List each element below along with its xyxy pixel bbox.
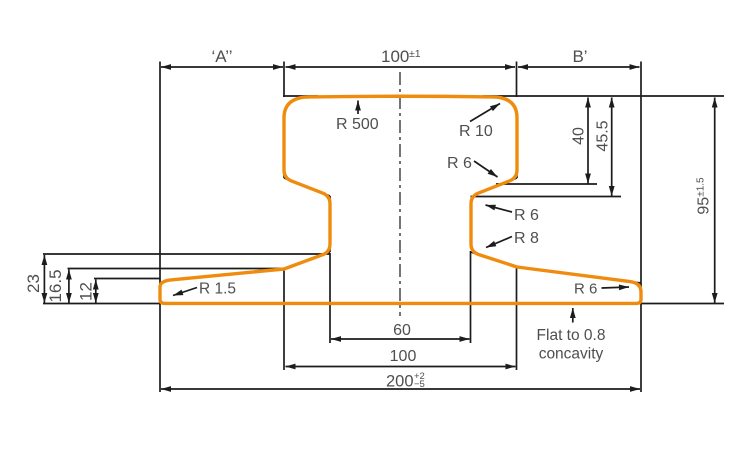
extension line: rail bottom left stub	[43, 303, 161, 305]
extension line: 12 level	[94, 278, 160, 280]
corner mark: web top-left slope	[321, 192, 330, 196]
corner mark: web bottom-left slope	[321, 252, 330, 256]
svg-text:60: 60	[393, 322, 411, 339]
svg-text:R 8: R 8	[514, 230, 539, 247]
extension line: rail bottom right, to 95 dim	[640, 303, 724, 305]
centerline of rail (dash-dot)	[399, 72, 401, 316]
leader arrow to R 1.5 foot edge	[173, 288, 197, 296]
svg-text:40: 40	[571, 127, 588, 145]
corner mark: web bottom-left vertical	[329, 242, 331, 252]
dimension line 95±1.5 (rail height)	[712, 98, 718, 304]
corner mark: head lower-right slope	[508, 178, 518, 182]
extension line: 16.5 level	[68, 268, 285, 270]
dimension line 12	[93, 280, 99, 304]
extension line: rail top right, to 95 dim	[483, 95, 724, 97]
svg-text:‘A’’: ‘A’’	[211, 47, 232, 66]
extension line: web left edge down to 60 dim	[329, 253, 331, 343]
svg-text:B’: B’	[572, 47, 587, 66]
dimension line 100±1 (head width)	[286, 64, 516, 70]
dimension line 60 (web width)	[331, 336, 470, 342]
svg-text:Flat to 0.8: Flat to 0.8	[537, 327, 606, 344]
svg-text:−5: −5	[414, 379, 425, 390]
svg-text:R 1.5: R 1.5	[199, 281, 236, 298]
svg-text:R 6: R 6	[447, 155, 472, 172]
leader arrow to R 10 corner	[470, 104, 500, 122]
extension line: right edge of 200 foot width	[640, 62, 642, 393]
corner mark: head lower-left vertical	[283, 168, 285, 178]
leader arrow to flat bottom surface	[570, 308, 576, 323]
extension line: web right edge down to 60 dim	[470, 251, 472, 343]
corner mark: web top-left vertical	[329, 196, 331, 206]
extension line: head right edge (top)	[516, 62, 518, 98]
extension line: 40 level under head	[496, 183, 597, 185]
svg-text:concavity: concavity	[539, 346, 604, 363]
svg-text:100: 100	[390, 348, 417, 365]
dimension line 40 (head depth)	[585, 98, 591, 184]
svg-text:R 6: R 6	[514, 207, 539, 224]
corner mark: head lower-left slope	[284, 178, 294, 182]
dimension line B'	[518, 64, 640, 70]
extension line: left foot slope kink down to 100 dim	[283, 269, 285, 370]
svg-text:R 10: R 10	[459, 123, 493, 140]
svg-text:R 6: R 6	[574, 281, 597, 298]
leader arrow to R 6 under head	[486, 205, 513, 212]
svg-text:200: 200	[386, 373, 414, 391]
svg-text:12: 12	[77, 282, 96, 301]
svg-text:±1: ±1	[409, 48, 421, 60]
extension line: rail top left stub	[283, 95, 318, 97]
svg-text:16.5: 16.5	[46, 269, 65, 302]
extension line: right foot slope kink down to 100 dim	[516, 267, 518, 370]
extension line: left edge of 200 foot width	[159, 62, 161, 393]
rail profile outline (A100 crane rail cross-section)	[160, 96, 641, 303]
svg-text:R 500: R 500	[336, 116, 379, 133]
extension line: head left edge (top)	[283, 62, 285, 98]
extension line: 23 level	[43, 253, 330, 255]
dimension line 'A' (left half head offset)	[161, 64, 283, 70]
leader arrow to R 6 head side	[474, 161, 498, 177]
dimension line 45.5	[609, 98, 615, 197]
extension line: 45.5 level web top	[471, 196, 622, 198]
dimension line 16.5	[66, 270, 72, 304]
svg-text:100: 100	[381, 47, 409, 66]
corner mark: web bottom-right slope	[471, 252, 481, 255]
dimension line 100 (bottom)	[286, 364, 516, 370]
leader arrow to R 500 crown	[355, 101, 361, 115]
dimension line 23 (foot edge height)	[42, 255, 48, 303]
corner mark: foot right top slope	[630, 282, 641, 283]
leader arrow to R 8 web fillet	[486, 237, 512, 248]
dimension line 200 (foot width)	[161, 386, 640, 392]
svg-text:23: 23	[24, 274, 43, 293]
svg-text:45.5: 45.5	[595, 120, 612, 151]
corner mark: head lower-right vertical	[516, 168, 518, 178]
leader arrow to R 6 foot corner	[602, 285, 630, 291]
